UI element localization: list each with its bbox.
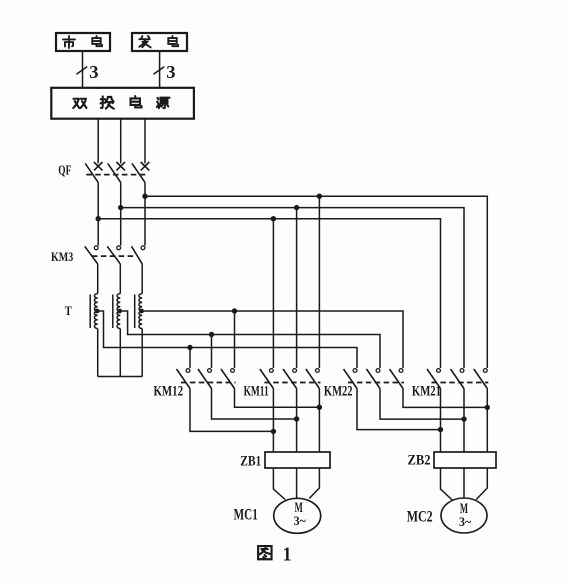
junction node bus L2 to KM11 pole 2 <box>294 205 299 210</box>
contactor KM21 pole 1 <box>437 369 441 373</box>
contactor KM11 linkage dashed line <box>264 382 320 384</box>
caption figure character tu <box>258 546 271 559</box>
contactor KM21 pole 2 <box>460 369 464 373</box>
wire KM21 pole 2 output to ZB2 <box>463 389 465 453</box>
contactor KM12 pole 1 <box>186 369 190 373</box>
wire KM21 pole 3 output to ZB2 <box>486 389 488 453</box>
wire KM22 pole 1 output to junction on KM21 pole 1 output <box>357 389 441 430</box>
label fa (generate) <box>139 36 150 47</box>
breaker QF linkage dashed line <box>86 174 146 176</box>
svg-text:MC2: MC2 <box>407 508 433 525</box>
wire KM11 pole 3 output to ZB1 <box>318 389 320 453</box>
wire branch tap bus 1 down to KM12 pole 1 <box>189 348 191 369</box>
junction node KM12/KM11 pole 1 outputs <box>271 429 276 434</box>
transformer T coil 2 tap node <box>117 309 122 314</box>
box dual-throw power source (shuang tou dian yuan) <box>51 88 194 119</box>
wire KM11 pole 2 output to ZB1 <box>296 389 298 453</box>
contactor KM22 pole 3 <box>399 369 403 373</box>
box mains supply (shi dian) <box>56 33 110 51</box>
contactor KM3 pole 1 <box>94 246 98 250</box>
breaker QF pole 2 (X contact and blade) <box>116 162 125 170</box>
wire KM22 pole 3 output to junction on KM21 pole 3 output <box>403 389 487 408</box>
wire transformer coil 3 bottom to star bar <box>141 329 143 377</box>
wire tap bus 3 (coil 3) to KM22 pole 3 <box>142 311 403 368</box>
svg-text:ZB1: ZB1 <box>240 453 261 469</box>
wire ZB2 to motor MC2 phase 3 <box>476 468 487 500</box>
junction node bus L1 to KM11 pole 1 <box>271 216 276 221</box>
wire tap bus 1 (coil 1) jog and run to KM22 pole 1 <box>98 311 357 368</box>
wire KM12 pole 2 output to junction on KM11 pole 2 output <box>212 389 297 420</box>
overload relay ZB1 box <box>265 452 330 468</box>
junction node phase L2 branch <box>118 205 123 210</box>
contactor KM3 pole 2 <box>117 246 121 250</box>
wire phase L1 source box to QF <box>97 119 99 164</box>
wire KM21 pole 1 output to ZB2 <box>440 389 442 453</box>
junction node KM22/KM21 pole 1 outputs <box>438 427 443 432</box>
svg-text:QF: QF <box>58 163 71 178</box>
wire ZB1 to motor MC1 phase 3 <box>309 468 319 499</box>
contactor KM21 pole 3 <box>483 369 487 373</box>
svg-text:KM22: KM22 <box>324 384 353 400</box>
wire KM12 pole 1 output to junction on KM11 pole 1 output <box>190 389 273 432</box>
junction node bus L3 to KM11 pole 3 <box>317 194 322 199</box>
svg-text:MC1: MC1 <box>234 506 258 523</box>
svg-text:3~: 3~ <box>459 514 471 529</box>
contactor KM21 linkage dashed line <box>432 382 489 384</box>
three-phase tick on generator wire <box>154 67 165 75</box>
junction node phase L3 branch <box>142 194 147 199</box>
wire branch bus L1 down to KM11 pole 1 <box>272 219 274 368</box>
junction node tap bus 3 to KM12 pole 3 <box>232 308 237 313</box>
transformer T coil 3 tap node <box>139 309 144 314</box>
wire transformer star-point bar <box>98 376 143 378</box>
contactor KM3 pole 3 <box>141 246 145 250</box>
contactor KM11 pole 3 <box>316 369 320 373</box>
contactor KM12 pole 2 <box>208 369 212 373</box>
svg-text:3: 3 <box>166 62 175 82</box>
svg-text:1: 1 <box>283 543 292 565</box>
junction node phase L1 branch <box>96 216 101 221</box>
contactor KM22 pole 1 <box>353 369 357 373</box>
label dian (electric) of source box <box>131 96 142 107</box>
motor MC2 circle <box>441 498 487 533</box>
svg-text:KM21: KM21 <box>412 384 441 400</box>
transformer T coil 1 tap node <box>95 309 100 314</box>
contactor KM11 pole 1 <box>270 369 274 373</box>
contactor KM22 linkage dashed line <box>348 382 404 384</box>
wire transformer coil 1 bottom to star bar <box>97 329 99 377</box>
label shuang (dual) <box>73 99 86 108</box>
svg-text:KM12: KM12 <box>154 384 184 400</box>
label dian (electric) of mains box <box>92 36 102 46</box>
junction node tap bus 2 to KM12 pole 2 <box>209 332 214 337</box>
wire ZB1 to motor MC1 phase 1 <box>273 468 285 500</box>
wire KM3 pole 3 to transformer coil 3 <box>141 264 143 294</box>
label yuan (source) <box>157 98 170 109</box>
wire branch tap bus 3 down to KM12 pole 3 <box>234 311 236 368</box>
svg-text:ZB2: ZB2 <box>408 453 431 469</box>
transformer T coil 2 with core bar <box>117 294 120 329</box>
wire full-voltage bus L3 to KM21 pole 3 <box>145 196 487 368</box>
contactor KM12 linkage dashed line <box>181 382 236 384</box>
wire branch tap bus 2 down to KM12 pole 2 <box>211 335 213 369</box>
wire full-voltage bus L1 to KM21 pole 1 <box>98 219 440 368</box>
svg-text:KM3: KM3 <box>51 250 73 264</box>
svg-text:3~: 3~ <box>294 513 306 528</box>
breaker QF pole 3 (X contact and blade) <box>141 162 150 170</box>
wire phase L3 QF to KM3 <box>144 182 146 245</box>
contactor KM12 pole 3 <box>231 369 235 373</box>
junction node KM12/KM11 pole 2 outputs <box>294 416 299 421</box>
wire KM3 pole 2 to transformer coil 2 <box>119 264 121 294</box>
contactor KM3 linkage dashed line <box>92 255 136 257</box>
junction node tap bus 1 to KM12 pole 1 <box>187 345 192 350</box>
box generator supply (fa dian) <box>132 33 187 51</box>
wire phase L3 source box to QF <box>144 119 146 164</box>
wire phase L2 QF to KM3 <box>120 182 122 245</box>
three-phase tick on mains wire <box>76 67 87 75</box>
transformer T coil 3 with core bar <box>139 294 142 329</box>
motor MC1 circle <box>274 498 321 533</box>
label dian (electric) of generator box <box>168 36 178 46</box>
label tou (throw) <box>101 96 114 108</box>
wire mains box to transfer-switch box <box>82 51 84 88</box>
junction node KM22/KM21 pole 3 outputs <box>485 405 490 410</box>
wire phase L1 QF to KM3 <box>97 182 99 245</box>
wire phase L2 source box to QF <box>120 119 122 164</box>
wire branch bus L3 down to KM11 pole 3 <box>318 196 320 368</box>
wire ZB2 to motor MC2 phase 2 <box>463 468 465 498</box>
wire KM3 pole 1 to transformer coil 1 <box>97 264 99 294</box>
wire KM12 pole 3 output to junction on KM11 pole 3 output <box>235 389 320 408</box>
wire ZB2 to motor MC2 phase 1 <box>441 468 453 500</box>
wire KM22 pole 2 output to junction on KM21 pole 2 output <box>380 389 464 420</box>
wire full-voltage bus L2 to KM21 pole 2 <box>121 208 464 368</box>
wire transformer coil 2 bottom to star bar <box>119 329 121 377</box>
wire generator box to transfer-switch box <box>159 51 161 88</box>
junction node KM12/KM11 pole 3 outputs <box>317 405 322 410</box>
svg-text:T: T <box>65 303 72 318</box>
contactor KM11 pole 2 <box>293 369 297 373</box>
junction node KM22/KM21 pole 2 outputs <box>461 416 466 421</box>
wire KM11 pole 1 output to ZB1 <box>272 389 274 453</box>
wire tap bus 2 (coil 2) jog and run to KM22 pole 2 <box>120 311 380 368</box>
overload relay ZB2 box <box>434 452 496 468</box>
wire ZB1 to motor MC1 phase 2 <box>296 468 298 498</box>
wire branch bus L2 down to KM11 pole 2 <box>296 208 298 368</box>
svg-text:3: 3 <box>89 62 98 82</box>
label shi (city) <box>63 36 75 48</box>
breaker QF pole 1 (X contact and blade) <box>94 162 103 170</box>
transformer T coil 1 with core bar <box>94 294 97 329</box>
contactor KM22 pole 2 <box>376 369 380 373</box>
svg-text:KM11: KM11 <box>244 384 269 400</box>
